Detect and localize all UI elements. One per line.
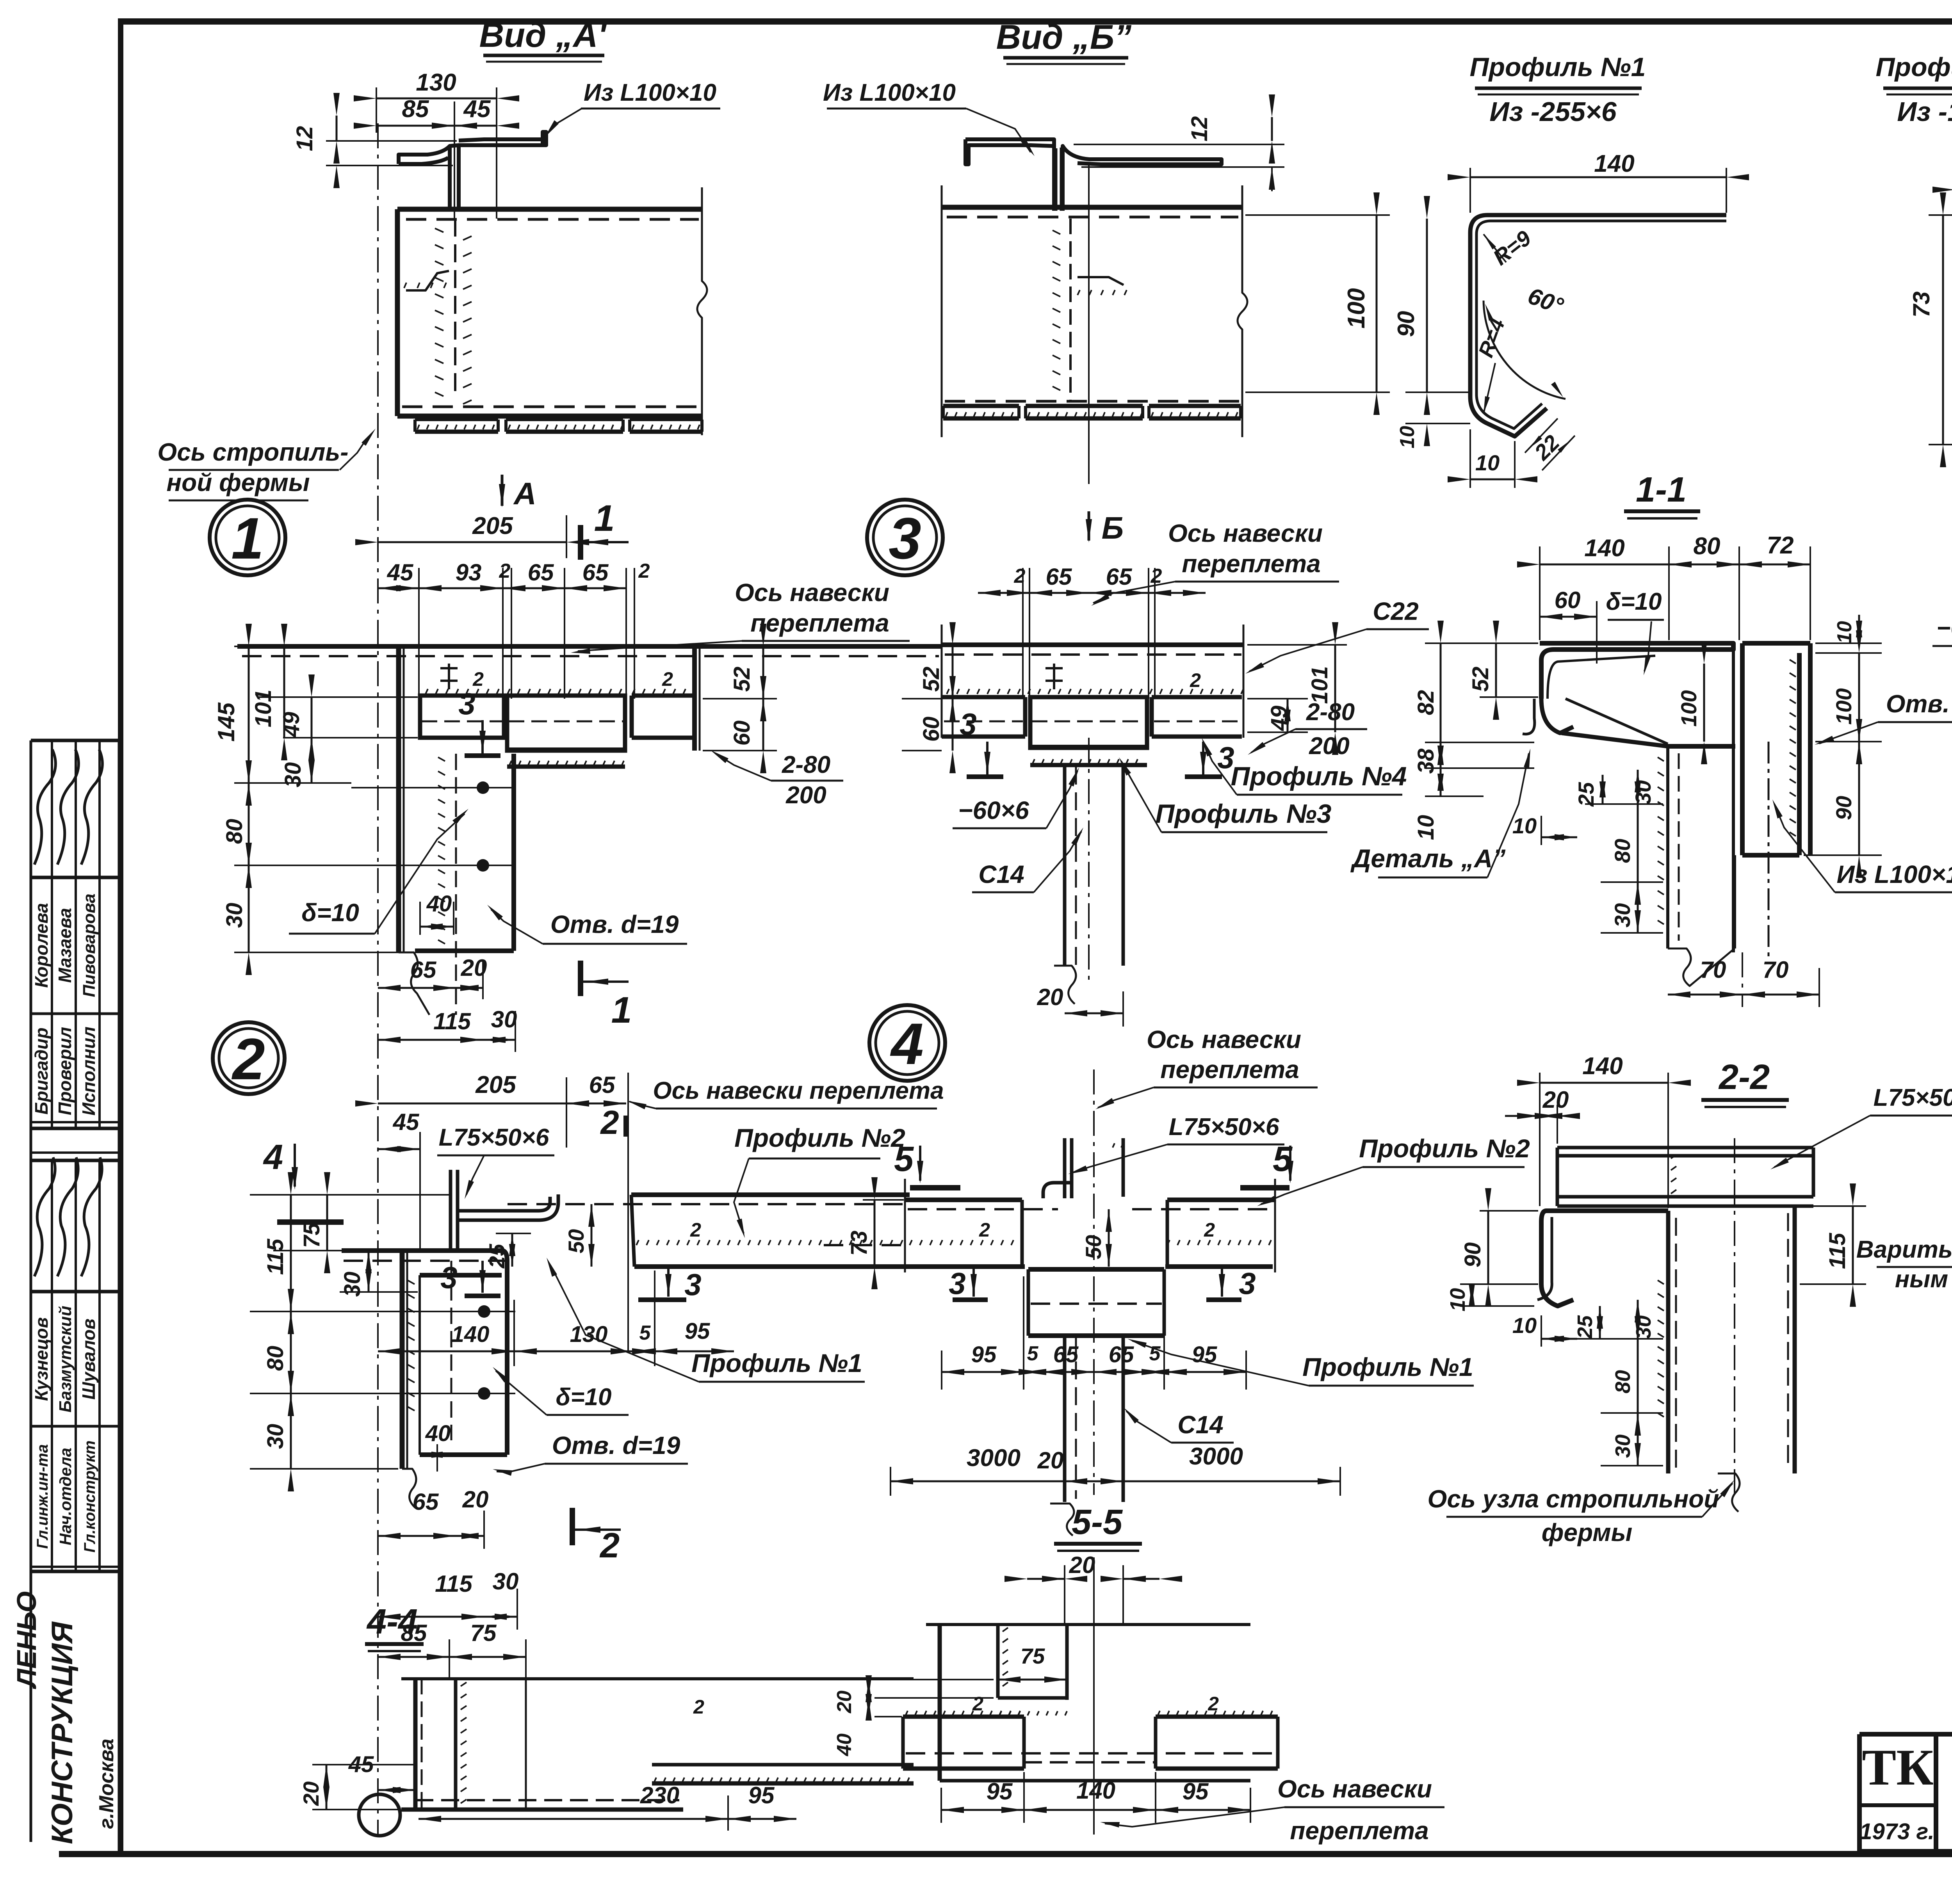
- svg-text:2: 2: [690, 1219, 701, 1241]
- svg-text:52: 52: [1468, 667, 1493, 692]
- svg-text:2: 2: [600, 1104, 619, 1141]
- svg-text:80: 80: [263, 1346, 288, 1371]
- svg-text:65: 65: [1106, 564, 1133, 590]
- view B center line: [1088, 164, 1090, 484]
- svg-text:12: 12: [292, 126, 317, 151]
- svg-text:ЛЕНЬО: ЛЕНЬО: [11, 1591, 42, 1690]
- 1-1 right dim stack 10 100 90: [1815, 642, 1882, 644]
- node 4 dim 50: [1108, 1209, 1110, 1267]
- svg-text:R=4: R=4: [1474, 315, 1510, 360]
- 2-2 bottom break: [1718, 1473, 1740, 1512]
- svg-text:4: 4: [890, 1011, 923, 1077]
- svg-text:65: 65: [413, 1489, 439, 1515]
- 2-2 dim 115 right: [1800, 1205, 1866, 1207]
- svg-text:130: 130: [570, 1322, 608, 1347]
- 1-1 dim 60: [1540, 616, 1597, 618]
- svg-text:Ось навески: Ось навески: [1277, 1775, 1432, 1803]
- node 1 bottom break: [399, 952, 429, 1015]
- svg-text:ТК: ТК: [1862, 1739, 1934, 1796]
- svg-text:20: 20: [1069, 1552, 1095, 1578]
- svg-text:С22: С22: [1373, 597, 1418, 625]
- 1-1 dims 25 30 80 30 center: [1602, 775, 1604, 804]
- svg-text:1: 1: [611, 989, 632, 1031]
- node 2 top dims 205 65: [378, 1103, 566, 1105]
- svg-text:30: 30: [222, 903, 247, 928]
- svg-text:5: 5: [1149, 1342, 1161, 1365]
- svg-text:L75×50×6: L75×50×6: [1874, 1084, 1952, 1111]
- svg-text:10: 10: [1396, 426, 1419, 448]
- svg-text:101: 101: [251, 690, 276, 728]
- node 1 circle: [210, 500, 285, 575]
- 5-5 center line: [1093, 1557, 1095, 1835]
- svg-text:82: 82: [1413, 690, 1439, 715]
- svg-text:38: 38: [1413, 748, 1439, 774]
- svg-text:65: 65: [528, 559, 554, 585]
- node 3 top dims 2 65 65 2: [978, 592, 1029, 594]
- svg-text:75: 75: [1021, 1644, 1045, 1668]
- svg-text:10: 10: [1512, 1313, 1537, 1338]
- 1-1 bottom small box: [1733, 855, 1736, 948]
- svg-text:90: 90: [1460, 1242, 1485, 1268]
- node 4 angle on top: [1063, 1138, 1067, 1198]
- svg-text:3: 3: [458, 687, 475, 721]
- svg-text:5: 5: [639, 1322, 651, 1344]
- svg-text:Ось стропиль-: Ось стропиль-: [157, 438, 348, 466]
- svg-text:5: 5: [894, 1140, 914, 1179]
- view A hidden stem line with welds: [454, 219, 456, 395]
- svg-text:30: 30: [493, 1568, 519, 1594]
- svg-text:2: 2: [499, 560, 511, 582]
- 4-4 drawing: [401, 1677, 914, 1680]
- stamp signatures group 2: [34, 1157, 55, 1276]
- svg-text:60: 60: [1555, 587, 1581, 613]
- node 1 weld symbol: [440, 664, 458, 689]
- svg-text:50: 50: [1081, 1235, 1106, 1259]
- stamp table: [30, 740, 32, 1842]
- node 1 batten under middle box: [507, 747, 625, 751]
- svg-text:145: 145: [213, 702, 239, 742]
- svg-text:230: 230: [640, 1782, 679, 1808]
- profile N1 60deg arc: [1484, 301, 1566, 399]
- svg-text:Из -255×6: Из -255×6: [1489, 96, 1617, 127]
- 4-4 empty circle: [359, 1794, 400, 1836]
- 4-4 bottom batten: [415, 1799, 679, 1801]
- svg-text:2: 2: [1190, 669, 1201, 691]
- svg-text:Ось навески: Ось навески: [1147, 1025, 1301, 1053]
- svg-text:115: 115: [435, 1571, 473, 1597]
- profile N2 dim 73: [1929, 214, 1952, 216]
- node 4 right panel: [1167, 1198, 1275, 1202]
- svg-text:Профиль №2: Профиль №2: [1359, 1134, 1530, 1163]
- svg-text:72: 72: [1767, 532, 1794, 559]
- axis of truss (vertical dash-dot): [377, 123, 379, 1836]
- node 2 circle: [213, 1022, 285, 1094]
- svg-text:2: 2: [638, 560, 650, 582]
- node 3 circle: [867, 500, 943, 575]
- svg-text:80: 80: [222, 819, 247, 844]
- node 4 hinge centerline: [1093, 1069, 1095, 1495]
- svg-text:49: 49: [279, 712, 304, 738]
- svg-text:2-2: 2-2: [1718, 1058, 1770, 1097]
- node 1 hidden line in gusset: [455, 754, 457, 1015]
- 5-5 top line: [926, 1623, 1250, 1626]
- node 1 weld ticks under panel: [426, 689, 428, 694]
- node 2 angle piece: [449, 1170, 452, 1251]
- node 4 circle: [869, 1005, 945, 1081]
- svg-text:Ось навески: Ось навески: [1168, 519, 1323, 547]
- svg-text:80: 80: [1611, 1370, 1635, 1393]
- 1-1 dims 82 52 38 10 left: [1425, 642, 1538, 644]
- title block: [1859, 1732, 1952, 1737]
- svg-text:75: 75: [299, 1222, 324, 1248]
- node 1 channel box middle: [507, 696, 625, 751]
- svg-text:80: 80: [1610, 839, 1635, 863]
- svg-text:30: 30: [340, 1272, 365, 1297]
- node 4 left panel: [905, 1198, 1022, 1202]
- svg-text:70: 70: [1763, 957, 1789, 983]
- 2-2 dims 140 20: [1540, 1082, 1668, 1084]
- svg-text:ным швом: ным швом: [1895, 1266, 1952, 1293]
- svg-text:95: 95: [748, 1782, 775, 1808]
- svg-text:100: 100: [1831, 688, 1856, 724]
- svg-text:20: 20: [833, 1690, 856, 1714]
- svg-text:г.Москва: г.Москва: [95, 1739, 118, 1829]
- 1-1 dim 10 under hook: [1541, 836, 1577, 838]
- svg-text:3: 3: [1239, 1266, 1256, 1301]
- svg-text:101: 101: [1307, 666, 1332, 704]
- node 2 left dim stack 115 75 30 80 30: [250, 1194, 449, 1196]
- node 2 gusset holes: [478, 1305, 490, 1318]
- node 1 left dim stack 145 101 49 30 80 30: [234, 646, 397, 647]
- svg-text:фермы: фермы: [1542, 1518, 1632, 1546]
- svg-text:Пивоварова: Пивоварова: [80, 893, 99, 997]
- node 1 panel top line: [237, 644, 942, 649]
- svg-text:200: 200: [785, 782, 826, 809]
- svg-text:Вид „Б”: Вид „Б”: [996, 18, 1131, 56]
- svg-text:Профиль №4: Профиль №4: [1231, 762, 1407, 791]
- node 2 section 2 marker top right: [623, 1116, 629, 1137]
- svg-text:переплета: переплета: [750, 609, 889, 637]
- svg-text:100: 100: [1676, 690, 1701, 726]
- svg-text:52: 52: [729, 667, 755, 692]
- node 3 left box: [942, 695, 1025, 699]
- view A tee profile: [399, 146, 450, 211]
- svg-text:52: 52: [919, 667, 944, 692]
- svg-text:65: 65: [410, 957, 437, 983]
- 1-1 slope to bottom: [1562, 733, 1668, 746]
- svg-text:85: 85: [401, 1620, 427, 1646]
- svg-text:3000: 3000: [1189, 1443, 1243, 1470]
- view B weld cross detail: [1069, 219, 1072, 402]
- svg-text:Нач.отдела: Нач.отдела: [56, 1448, 75, 1545]
- svg-text:Исполнил: Исполнил: [78, 1027, 99, 1116]
- svg-text:Профиль №3: Профиль №3: [1156, 799, 1332, 829]
- svg-text:20: 20: [1037, 984, 1063, 1010]
- node 4 section 3 markers: [953, 1297, 988, 1302]
- svg-text:Из L100×10: Из L100×10: [1837, 860, 1952, 888]
- svg-text:90: 90: [1831, 796, 1856, 820]
- svg-text:3: 3: [889, 505, 921, 571]
- 5-5 left channel box: [903, 1715, 1024, 1719]
- 2-2 profile N1 outline: [1546, 1208, 1668, 1213]
- svg-text:30: 30: [1610, 903, 1635, 927]
- node 4 C14 channel below: [1063, 1336, 1067, 1502]
- svg-text:3: 3: [949, 1266, 965, 1301]
- svg-text:2: 2: [231, 1026, 265, 1092]
- node 2 section mark 2 bottom: [570, 1508, 575, 1545]
- svg-text:Профиль №2: Профиль №2: [734, 1123, 905, 1152]
- svg-text:100: 100: [1343, 288, 1370, 328]
- 1-1 hook detail: [1541, 699, 1573, 733]
- svg-text:40: 40: [426, 891, 452, 916]
- svg-text:δ=10: δ=10: [301, 899, 359, 927]
- svg-text:Бригадир: Бригадир: [31, 1028, 52, 1115]
- 5-5 dims 20 40 left: [868, 1680, 870, 1698]
- 2-2 dims left 90 10 10: [1480, 1210, 1538, 1212]
- node 3 left dims 52 60: [902, 644, 942, 646]
- svg-text:60: 60: [729, 721, 755, 746]
- 1-1 top dims 140 80 72: [1540, 564, 1669, 566]
- view B bottom battens: [943, 404, 1019, 408]
- svg-text:65: 65: [582, 559, 609, 585]
- sheet border frame: [118, 18, 1952, 25]
- view B dim 100: [1245, 214, 1390, 216]
- svg-text:75: 75: [470, 1620, 497, 1646]
- 1-1 main profile outline: [1540, 643, 1733, 699]
- svg-text:73: 73: [846, 1231, 872, 1256]
- svg-text:2: 2: [693, 1696, 704, 1718]
- view A bottom batten strips: [415, 418, 498, 421]
- node 2 dims 25 50 center: [511, 1233, 513, 1267]
- svg-text:85: 85: [402, 96, 429, 123]
- node 1 right dim stack 52 60: [703, 646, 777, 647]
- svg-text:Отв. d=19: Отв. d=19: [552, 1431, 680, 1459]
- svg-text:130: 130: [416, 69, 456, 96]
- svg-text:Ось узла стропильной: Ось узла стропильной: [1428, 1485, 1719, 1513]
- node 2 section 3 marker inner: [465, 1294, 500, 1298]
- node 3 view marker B arrow: [1088, 511, 1090, 541]
- svg-text:5: 5: [1027, 1342, 1039, 1365]
- svg-text:205: 205: [475, 1071, 516, 1098]
- svg-text:Из -120×3: Из -120×3: [1897, 96, 1952, 127]
- 1-1 bottom flange: [1668, 744, 1735, 749]
- node 2 section 3 marker right: [638, 1297, 686, 1302]
- svg-text:30: 30: [491, 1006, 517, 1032]
- node 1 section mark 1 bottom: [578, 961, 583, 996]
- svg-text:93: 93: [456, 559, 482, 585]
- view B tee profile: [965, 139, 1054, 211]
- 2-2 center verticals: [1666, 1211, 1671, 1473]
- svg-text:δ=10: δ=10: [556, 1384, 611, 1411]
- svg-text:45: 45: [387, 559, 414, 585]
- svg-text:200: 200: [1309, 733, 1349, 760]
- node 1 top dims 45 93 2 65 65 2: [378, 587, 419, 589]
- svg-text:Шувалов: Шувалов: [78, 1319, 99, 1400]
- svg-text:Базмутский: Базмутский: [56, 1306, 75, 1413]
- profile N1 dim 10 bottom: [1469, 429, 1471, 488]
- 5-5 left vertical: [938, 1625, 942, 1781]
- node 2 left panel top: [342, 1248, 502, 1253]
- svg-text:115: 115: [1825, 1233, 1850, 1269]
- svg-text:КОНСТРУКЦИЯ: КОНСТРУКЦИЯ: [46, 1621, 79, 1844]
- svg-text:Отв. d=19: Отв. d=19: [550, 910, 679, 938]
- 4-4 right hatched strip: [652, 1763, 914, 1767]
- svg-text:Из L100×10: Из L100×10: [823, 79, 956, 106]
- profile N1 outline: [1470, 215, 1726, 436]
- svg-text:20: 20: [299, 1781, 323, 1806]
- node 2 gusset: [400, 1251, 405, 1469]
- node 4 center box: [1028, 1267, 1164, 1272]
- svg-text:Профиль №1: Профиль №1: [1302, 1352, 1473, 1381]
- svg-text:40: 40: [425, 1421, 451, 1446]
- svg-text:2-80: 2-80: [1306, 699, 1355, 726]
- svg-text:2: 2: [599, 1526, 620, 1565]
- svg-text:25: 25: [1573, 1315, 1597, 1339]
- 5-5 right channel box: [1156, 1715, 1278, 1719]
- node 3 middle box: [1030, 697, 1147, 748]
- svg-text:10: 10: [1446, 1288, 1469, 1311]
- svg-text:90: 90: [1393, 311, 1419, 337]
- svg-text:70: 70: [1700, 957, 1726, 983]
- svg-text:65: 65: [1053, 1342, 1079, 1367]
- svg-text:переплета: переплета: [1290, 1817, 1429, 1845]
- svg-text:1: 1: [231, 505, 264, 571]
- svg-text:3000: 3000: [967, 1445, 1021, 1472]
- svg-text:L75×50×6: L75×50×6: [439, 1124, 549, 1151]
- svg-text:−60×6: −60×6: [958, 796, 1029, 824]
- node 3 section 3 markers: [967, 774, 1003, 779]
- 1-1 right angle L100x10: [1740, 643, 1745, 855]
- node 3 right box: [1152, 695, 1242, 699]
- svg-text:Отв. d=23: Отв. d=23: [1886, 690, 1952, 718]
- svg-text:Из L100×10: Из L100×10: [584, 79, 716, 106]
- svg-text:5-5: 5-5: [1072, 1503, 1123, 1542]
- node 1 gusset holes: [477, 781, 489, 794]
- 4-4 dim 20 rot: [326, 1765, 328, 1810]
- svg-text:25: 25: [1574, 782, 1598, 807]
- svg-text:1973 г.: 1973 г.: [1859, 1819, 1934, 1844]
- view A small angle weld detail: [406, 271, 449, 290]
- svg-text:Вид „А': Вид „А': [479, 16, 607, 54]
- svg-text:30: 30: [1611, 1434, 1635, 1458]
- svg-text:73: 73: [1908, 292, 1934, 318]
- svg-text:Профиль №2: Профиль №2: [1876, 52, 1952, 82]
- node 4 dim 73: [863, 1199, 904, 1201]
- 5-5 bottom strip: [1024, 1761, 1156, 1763]
- svg-text:10: 10: [1413, 815, 1439, 840]
- node 3 right dims 49 101: [1247, 644, 1347, 646]
- svg-text:95: 95: [685, 1319, 710, 1344]
- svg-text:Кузнецов: Кузнецов: [31, 1317, 52, 1401]
- svg-text:10: 10: [1512, 813, 1537, 838]
- svg-text:переплета: переплета: [1182, 550, 1321, 578]
- svg-text:60°: 60°: [1525, 283, 1567, 319]
- svg-text:30: 30: [263, 1424, 288, 1449]
- svg-text:80: 80: [1694, 533, 1720, 560]
- svg-text:65: 65: [1109, 1342, 1134, 1367]
- svg-text:Варить непрерыв: Варить непрерыв: [1856, 1236, 1952, 1263]
- svg-text:205: 205: [472, 512, 513, 539]
- svg-text:20: 20: [1037, 1447, 1064, 1473]
- svg-text:Ось навески: Ось навески: [735, 578, 889, 607]
- svg-text:1-1: 1-1: [1636, 470, 1687, 509]
- profile N1 dim 22 rotated: [1525, 418, 1558, 453]
- view A dim 130: [376, 87, 377, 133]
- svg-text:Б: Б: [1102, 511, 1124, 545]
- svg-text:45: 45: [348, 1752, 374, 1777]
- node 3 middle batten: [1030, 745, 1147, 748]
- node 2 dims 140 130 5 95: [378, 1351, 514, 1352]
- svg-text:А: А: [513, 476, 536, 511]
- svg-text:Деталь „А”: Деталь „А”: [1350, 844, 1506, 873]
- svg-text:2: 2: [979, 1219, 990, 1241]
- svg-text:С14: С14: [1177, 1411, 1223, 1439]
- svg-text:140: 140: [452, 1322, 490, 1347]
- node 3 C14 channel: [1063, 767, 1067, 966]
- svg-text:Проверил: Проверил: [55, 1027, 75, 1115]
- svg-text:45: 45: [463, 96, 491, 123]
- view A panel rectangle: [397, 207, 702, 212]
- svg-text:2: 2: [972, 1693, 983, 1715]
- node 1 dim 205: [378, 541, 566, 543]
- svg-text:Гл.конструкт: Гл.конструкт: [81, 1440, 98, 1552]
- 5-5 cut window: [996, 1625, 1000, 1698]
- svg-text:25: 25: [484, 1244, 509, 1269]
- 2-2 dims 25 30 80 30: [1599, 1306, 1601, 1339]
- view direction marker A: [501, 475, 504, 506]
- svg-text:−60×6: −60×6: [1936, 615, 1952, 642]
- node 3 panel: [942, 642, 1243, 647]
- svg-text:45: 45: [393, 1109, 420, 1135]
- svg-text:Мазаева: Мазаева: [55, 908, 75, 983]
- svg-text:Профиль №1: Профиль №1: [691, 1349, 862, 1377]
- profile N1 dims 100 90 10: [1405, 423, 1470, 424]
- svg-text:20: 20: [462, 1486, 489, 1513]
- node 1 section 3 marker: [465, 753, 500, 758]
- svg-text:60: 60: [919, 717, 944, 742]
- svg-text:95: 95: [1183, 1778, 1209, 1804]
- svg-text:4: 4: [263, 1138, 283, 1177]
- node 1 left thick plate edge: [396, 646, 401, 952]
- node 1 gusset plate: [511, 754, 516, 951]
- view B panel rectangle: [942, 205, 1242, 210]
- svg-text:65: 65: [1046, 564, 1072, 590]
- svg-text:140: 140: [1076, 1778, 1115, 1804]
- svg-text:3: 3: [440, 1260, 457, 1295]
- view A dims 85 45: [376, 125, 454, 127]
- svg-text:2: 2: [1204, 1219, 1215, 1241]
- svg-text:95: 95: [971, 1342, 997, 1367]
- svg-text:12: 12: [1187, 116, 1212, 142]
- node 2 hinge line: [627, 1073, 629, 1351]
- 1-1 dims 10 100 right inner: [1703, 664, 1705, 742]
- svg-text:R=9: R=9: [1489, 226, 1536, 270]
- svg-text:115: 115: [433, 1008, 471, 1034]
- node 1 channel box left: [420, 696, 504, 738]
- svg-text:140: 140: [1584, 535, 1624, 562]
- svg-text:30: 30: [280, 762, 306, 788]
- svg-text:L75×50×6: L75×50×6: [1169, 1114, 1279, 1141]
- node 1 section mark 1 top: [578, 525, 583, 560]
- svg-text:δ=10: δ=10: [1606, 588, 1662, 615]
- svg-text:49: 49: [1266, 706, 1292, 731]
- svg-text:40: 40: [833, 1733, 856, 1756]
- svg-text:1: 1: [594, 498, 615, 539]
- svg-text:10: 10: [1475, 450, 1500, 475]
- svg-text:10: 10: [1833, 621, 1856, 644]
- svg-text:140: 140: [1594, 150, 1634, 177]
- svg-text:2: 2: [1014, 565, 1026, 587]
